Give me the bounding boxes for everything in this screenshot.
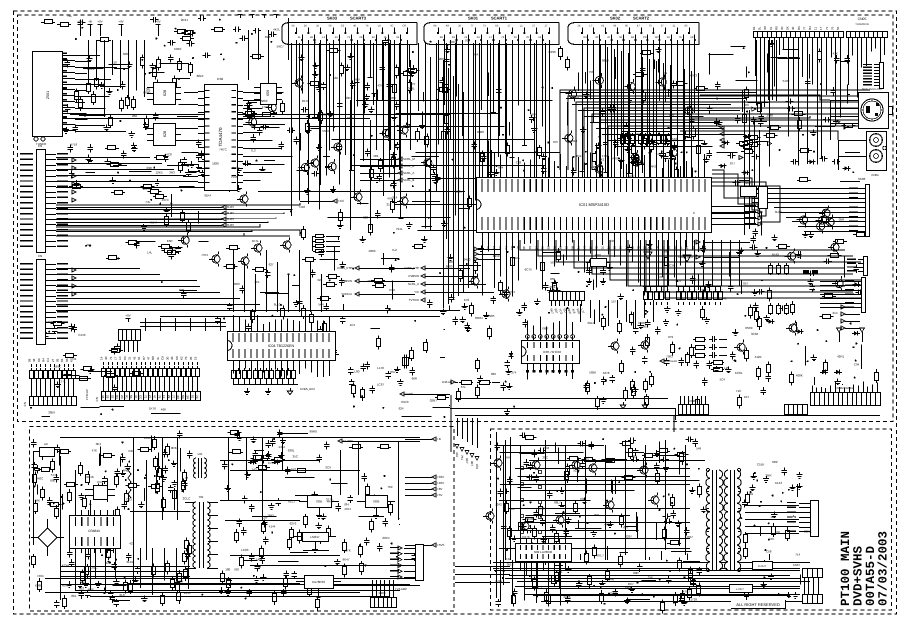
svg-text:844: 844 (498, 166, 503, 170)
svg-text:47C7: 47C7 (683, 589, 691, 593)
svg-text:-: - (696, 287, 697, 291)
svg-text:R8: R8 (570, 246, 574, 250)
svg-text:RRL: RRL (594, 513, 600, 517)
svg-text:57L9: 57L9 (71, 143, 78, 147)
svg-text:37K: 37K (648, 576, 653, 580)
svg-text:+5V: +5V (125, 314, 130, 318)
svg-text:7583: 7583 (666, 354, 673, 358)
svg-text:47K: 47K (833, 52, 838, 56)
svg-text:LC03: LC03 (241, 548, 249, 552)
svg-text:Y: Y (693, 240, 695, 244)
svg-text:702: 702 (465, 39, 470, 43)
svg-text:K144: K144 (150, 221, 157, 225)
svg-text:TDA4470: TDA4470 (218, 127, 223, 147)
svg-text:7374: 7374 (201, 253, 208, 257)
svg-text:K973: K973 (690, 74, 697, 78)
svg-text:SK02: SK02 (610, 16, 621, 21)
svg-text:55R7: 55R7 (322, 129, 330, 133)
svg-text:7K: 7K (184, 356, 188, 360)
svg-text:7L4: 7L4 (795, 553, 800, 557)
svg-text:263: 263 (449, 260, 454, 264)
svg-text:833: 833 (632, 454, 637, 458)
svg-text:1780: 1780 (766, 114, 773, 118)
svg-text:FT06: FT06 (262, 105, 269, 109)
svg-text:80C: 80C (690, 560, 696, 564)
svg-text:784: 784 (344, 502, 349, 506)
svg-text:RESET: RESET (644, 248, 653, 251)
svg-text:6083: 6083 (446, 264, 453, 268)
svg-text:0L: 0L (655, 246, 659, 250)
svg-text:TV/LAMP: TV/LAMP (395, 587, 407, 591)
svg-text:Y/C: Y/C (414, 290, 419, 294)
svg-text:72: 72 (607, 246, 611, 250)
svg-text:24C: 24C (769, 537, 775, 541)
svg-text:4R7: 4R7 (410, 82, 416, 86)
svg-text:274: 274 (511, 371, 516, 375)
svg-text:77: 77 (802, 26, 806, 30)
svg-text:742: 742 (506, 557, 511, 561)
svg-text:3C9: 3C9 (325, 466, 331, 470)
svg-text:1K76: 1K76 (149, 407, 156, 411)
svg-text:2K: 2K (359, 36, 362, 39)
svg-text:CN04: CN04 (871, 173, 879, 177)
svg-text:07/03/2003: 07/03/2003 (877, 531, 891, 606)
svg-text:FL/TRE: FL/TRE (343, 439, 353, 443)
svg-text:80R: 80R (633, 571, 639, 575)
svg-text:K9: K9 (446, 25, 450, 28)
svg-text:71C: 71C (736, 389, 742, 393)
svg-text:6K: 6K (65, 358, 69, 362)
svg-text:907: 907 (470, 461, 474, 466)
svg-text:SCRL_M: SCRL_M (403, 157, 415, 161)
svg-text:CVBS_RC2: CVBS_RC2 (678, 255, 693, 259)
svg-text:05: 05 (189, 356, 193, 360)
svg-text:R9: R9 (583, 36, 587, 39)
svg-text:K7: K7 (70, 358, 74, 362)
svg-text:4K: 4K (170, 356, 174, 360)
svg-text:K9: K9 (540, 246, 544, 250)
svg-text:+8V: +8V (437, 487, 442, 491)
svg-text:6C75: 6C75 (525, 267, 533, 271)
svg-text:RL6: RL6 (265, 35, 271, 39)
svg-text:3284: 3284 (123, 52, 130, 56)
svg-text:699: 699 (179, 288, 184, 292)
svg-text:4RR: 4RR (88, 588, 95, 592)
svg-text:SCRL_A: SCRL_A (403, 171, 414, 175)
svg-text:4258: 4258 (591, 165, 598, 169)
svg-text:17R: 17R (602, 154, 608, 158)
svg-text:3L00: 3L00 (775, 210, 782, 214)
svg-text:R9: R9 (552, 246, 556, 250)
svg-text:7R7C: 7R7C (219, 148, 228, 152)
svg-text:10R3: 10R3 (368, 249, 376, 253)
svg-text:47: 47 (153, 395, 157, 399)
svg-text:44C8: 44C8 (165, 153, 173, 157)
svg-text:47: 47 (147, 356, 151, 360)
svg-text:4144: 4144 (269, 524, 276, 528)
svg-text:CN: CN (95, 397, 99, 401)
svg-text:760: 760 (234, 567, 239, 571)
svg-text:C23: C23 (126, 498, 132, 502)
svg-text:KB03: KB03 (379, 591, 386, 595)
svg-text:-: - (657, 287, 658, 291)
svg-text:0C4L: 0C4L (408, 87, 416, 91)
svg-text:3R3: 3R3 (169, 171, 175, 175)
svg-text:412K: 412K (755, 355, 762, 359)
svg-text:769: 769 (387, 485, 392, 489)
svg-text:0K1: 0K1 (96, 442, 102, 446)
svg-text:40: 40 (791, 26, 795, 30)
svg-text:2065: 2065 (439, 57, 446, 61)
svg-text:8CLL: 8CLL (87, 67, 95, 71)
svg-text:3L4: 3L4 (392, 195, 397, 199)
svg-text:44: 44 (101, 395, 105, 399)
svg-text:K5R: K5R (167, 239, 174, 243)
svg-text:27: 27 (148, 395, 152, 399)
svg-text:756: 756 (589, 70, 594, 74)
svg-text:02: 02 (110, 395, 114, 399)
svg-text:RR: RR (655, 36, 659, 39)
svg-text:CN: CN (38, 144, 42, 148)
svg-text:421: 421 (129, 542, 134, 546)
svg-text:K1: K1 (589, 246, 593, 250)
svg-text:C4: C4 (46, 358, 50, 362)
svg-text:3L: 3L (156, 356, 160, 360)
svg-text:447: 447 (81, 581, 86, 585)
svg-text:02R7: 02R7 (430, 399, 438, 403)
svg-text:085: 085 (669, 113, 674, 117)
svg-text:03: 03 (673, 246, 677, 250)
svg-text:66R: 66R (412, 376, 418, 380)
svg-text:CR: CR (403, 25, 407, 28)
svg-text:C94: C94 (854, 362, 860, 366)
svg-text:6L10: 6L10 (274, 302, 281, 306)
svg-text:05R9: 05R9 (745, 326, 753, 330)
svg-text:R4: R4 (510, 246, 514, 250)
svg-text:7967: 7967 (542, 326, 549, 330)
svg-text:38L: 38L (146, 87, 151, 91)
svg-text:CVBSIN: CVBSIN (341, 279, 352, 283)
svg-text:157: 157 (611, 299, 616, 303)
svg-text:R1K: R1K (389, 288, 395, 292)
svg-text:3CLC: 3CLC (183, 496, 192, 500)
svg-text:33R: 33R (146, 166, 152, 170)
svg-text:88L0: 88L0 (197, 74, 204, 78)
svg-text:5C4: 5C4 (720, 377, 726, 381)
svg-text:5113: 5113 (571, 139, 578, 143)
svg-text:LM317: LM317 (310, 535, 320, 539)
svg-text:546: 546 (672, 137, 677, 141)
svg-text:R70: R70 (613, 157, 619, 161)
svg-text:K143: K143 (775, 481, 782, 485)
svg-text:CN06: CN06 (689, 399, 697, 403)
svg-text:7R0C: 7R0C (36, 476, 45, 480)
svg-text:IC02: IC02 (217, 77, 224, 81)
svg-text:4C1: 4C1 (254, 280, 260, 284)
svg-text:-: - (722, 287, 723, 291)
svg-text:2K: 2K (786, 26, 790, 30)
svg-text:079: 079 (668, 335, 673, 339)
svg-text:MODULAR: MODULAR (664, 360, 677, 363)
svg-text:05R: 05R (839, 218, 845, 222)
svg-text:+5V: +5V (155, 20, 160, 24)
svg-text:764: 764 (510, 290, 515, 294)
svg-text:437: 437 (378, 84, 383, 88)
svg-text:030: 030 (775, 531, 780, 535)
svg-text:+33V: +33V (437, 475, 444, 479)
svg-text:88L7: 88L7 (554, 501, 561, 505)
svg-text:4695: 4695 (604, 523, 611, 527)
svg-text:CL: CL (637, 246, 641, 250)
svg-text:5227: 5227 (573, 469, 580, 473)
svg-text:77: 77 (172, 395, 176, 399)
svg-text:549: 549 (696, 446, 701, 450)
svg-text:L05: L05 (198, 452, 203, 456)
svg-text:C996: C996 (549, 50, 557, 54)
svg-text:659: 659 (266, 90, 270, 96)
svg-text:5139: 5139 (783, 79, 790, 83)
svg-text:4856: 4856 (625, 586, 632, 590)
svg-text:101: 101 (748, 492, 753, 496)
svg-text:SK05 SVHS-OUT: SK05 SVHS-OUT (862, 88, 883, 91)
svg-text:578: 578 (656, 152, 661, 156)
svg-text:954: 954 (823, 208, 828, 212)
svg-text:69C: 69C (580, 497, 586, 501)
svg-text:L4L: L4L (147, 250, 152, 254)
svg-text:T01: T01 (198, 495, 204, 499)
svg-text:13K0: 13K0 (572, 96, 579, 100)
svg-text:214: 214 (833, 311, 838, 315)
svg-text:783: 783 (744, 103, 749, 107)
svg-text:CN: CN (38, 254, 42, 258)
svg-text:R6: R6 (797, 26, 801, 30)
svg-text:-: - (679, 287, 680, 291)
svg-text:8680: 8680 (477, 130, 484, 134)
svg-text:L25: L25 (724, 366, 729, 370)
svg-text:27K: 27K (345, 548, 350, 552)
svg-text:L80: L80 (354, 369, 359, 373)
svg-text:7K: 7K (504, 246, 508, 250)
svg-text:IC05 74HC04: IC05 74HC04 (543, 350, 562, 354)
svg-text:-: - (668, 287, 669, 291)
svg-text:862: 862 (664, 250, 669, 254)
svg-text:7242: 7242 (495, 503, 502, 507)
svg-text:6L8: 6L8 (120, 593, 125, 597)
svg-text:C4R9: C4R9 (649, 164, 657, 168)
svg-text:8613: 8613 (602, 59, 609, 63)
svg-text:RLKL: RLKL (513, 256, 521, 260)
svg-text:-: - (705, 287, 706, 291)
svg-text:30: 30 (165, 356, 169, 360)
svg-text:12K5: 12K5 (156, 171, 163, 175)
svg-text:+18V: +18V (437, 481, 444, 485)
svg-text:2K: 2K (304, 25, 307, 28)
svg-text:7L3: 7L3 (251, 149, 256, 153)
svg-text:R476: R476 (522, 535, 530, 539)
svg-text:Z501: Z501 (46, 91, 50, 99)
svg-text:SCART3: SCART3 (350, 16, 367, 21)
svg-text:66: 66 (137, 356, 141, 360)
svg-text:1C4: 1C4 (350, 323, 356, 327)
svg-text:KC44: KC44 (62, 564, 70, 568)
svg-text:RJ45: RJ45 (227, 205, 234, 209)
svg-text:R83: R83 (234, 282, 240, 286)
svg-text:5856: 5856 (589, 371, 596, 375)
svg-text:7805: 7805 (316, 499, 323, 503)
svg-text:C82C: C82C (90, 566, 99, 570)
svg-text:RC5K: RC5K (169, 247, 177, 251)
svg-text:K64: K64 (505, 455, 511, 459)
svg-text:9C7: 9C7 (465, 458, 469, 464)
svg-text:851: 851 (510, 507, 515, 511)
svg-text:K48L: K48L (35, 584, 42, 588)
svg-text:71L: 71L (67, 14, 72, 18)
svg-text:C03: C03 (516, 160, 522, 164)
svg-text:R1: R1 (125, 395, 129, 399)
svg-text:86L: 86L (71, 594, 76, 598)
svg-text:91K4: 91K4 (204, 194, 211, 198)
svg-text:+5V: +5V (77, 20, 82, 24)
svg-text:R0R: R0R (62, 583, 69, 587)
svg-text:73: 73 (109, 356, 113, 360)
svg-text:30C: 30C (542, 456, 548, 460)
svg-text:CR: CR (643, 36, 647, 39)
svg-text:561: 561 (551, 260, 556, 264)
svg-text:CVBS_FTP: CVBS_FTP (404, 266, 419, 270)
svg-text:7K: 7K (679, 36, 682, 39)
svg-text:C727: C727 (610, 591, 618, 595)
svg-text:794L: 794L (396, 227, 403, 231)
svg-text:7595: 7595 (231, 175, 238, 179)
svg-text:74L: 74L (145, 200, 150, 204)
svg-text:37K: 37K (105, 561, 110, 565)
svg-text:2097: 2097 (450, 40, 457, 44)
svg-text:7809: 7809 (373, 499, 380, 503)
svg-text:KC8L: KC8L (735, 371, 743, 375)
svg-text:+5VS: +5VS (437, 543, 444, 547)
svg-text:L48: L48 (256, 558, 261, 562)
svg-text:107: 107 (744, 395, 749, 399)
svg-text:446: 446 (367, 279, 372, 283)
svg-text:210: 210 (112, 61, 117, 65)
svg-text:43: 43 (132, 356, 136, 360)
svg-text:89R0: 89R0 (310, 429, 318, 433)
svg-text:1626: 1626 (212, 162, 219, 166)
svg-text:09LC: 09LC (588, 321, 596, 325)
svg-text:L-OUT: L-OUT (736, 588, 744, 591)
svg-text:SK03: SK03 (327, 16, 338, 21)
svg-text:+5V: +5V (437, 493, 442, 497)
svg-text:5K33: 5K33 (526, 517, 533, 521)
svg-text:L176: L176 (377, 366, 384, 370)
svg-text:83: 83 (528, 246, 532, 250)
svg-text:46K: 46K (35, 498, 40, 502)
svg-text:K2: K2 (180, 356, 184, 360)
svg-text:466: 466 (161, 407, 166, 411)
svg-text:KK: KK (175, 356, 179, 360)
svg-text:4K: 4K (104, 356, 108, 360)
svg-text:+B: +B (437, 437, 441, 441)
svg-text:5K96: 5K96 (539, 507, 546, 511)
svg-text:71: 71 (825, 26, 829, 30)
svg-text:324: 324 (317, 278, 322, 282)
svg-text:624: 624 (399, 407, 404, 411)
svg-text:180: 180 (225, 567, 230, 571)
svg-text:-: - (701, 287, 702, 291)
svg-text:-: - (646, 287, 647, 291)
svg-text:SCART1: SCART1 (491, 16, 508, 21)
svg-text:05: 05 (56, 358, 60, 362)
svg-text:LK: LK (378, 25, 381, 28)
svg-text:4LR5: 4LR5 (563, 595, 571, 599)
svg-text:5K: 5K (129, 395, 133, 399)
svg-text:29: 29 (106, 395, 110, 399)
svg-text:88: 88 (691, 246, 695, 250)
svg-text:67: 67 (498, 246, 502, 250)
svg-text:C51K: C51K (757, 463, 765, 467)
svg-text:07L7: 07L7 (597, 554, 604, 558)
svg-text:48: 48 (32, 358, 36, 362)
svg-text:C58: C58 (766, 549, 772, 553)
svg-text:R57: R57 (390, 370, 396, 374)
svg-text:K21: K21 (129, 449, 135, 453)
svg-text:0L: 0L (758, 26, 762, 30)
svg-text:SCART2: SCART2 (633, 16, 650, 21)
svg-text:25: 25 (564, 246, 568, 250)
svg-text:092: 092 (79, 586, 84, 590)
svg-text:83: 83 (752, 26, 756, 30)
svg-text:76: 76 (830, 26, 834, 30)
svg-text:20C4: 20C4 (382, 536, 390, 540)
svg-text:9K47: 9K47 (343, 558, 350, 562)
svg-text:877: 877 (730, 162, 735, 166)
svg-text:SCRL_A: SCRL_A (408, 282, 419, 286)
svg-text:CN02 PANEL: CN02 PANEL (837, 386, 854, 390)
svg-text:4K47: 4K47 (327, 500, 334, 504)
svg-text:SK06: SK06 (858, 177, 866, 181)
svg-text:4957: 4957 (347, 116, 354, 120)
svg-text:R03K: R03K (47, 320, 55, 324)
svg-text:72: 72 (143, 395, 147, 399)
svg-text:13: 13 (162, 395, 166, 399)
svg-text:-: - (663, 287, 664, 291)
svg-text:7446: 7446 (298, 205, 305, 209)
svg-text:11: 11 (814, 27, 818, 30)
svg-text:CVBS_RC2: CVBS_RC2 (300, 387, 315, 391)
svg-text:42R1: 42R1 (837, 354, 845, 358)
svg-text:36: 36 (619, 246, 623, 250)
svg-text:6276: 6276 (290, 522, 297, 526)
svg-text:R4: R4 (42, 358, 46, 362)
svg-text:RJ45: RJ45 (227, 217, 234, 221)
svg-text:685: 685 (584, 458, 589, 462)
svg-text:1771: 1771 (59, 379, 66, 383)
svg-text:L9: L9 (685, 246, 689, 250)
svg-text:5869: 5869 (261, 99, 268, 103)
svg-text:1729: 1729 (690, 598, 697, 602)
svg-text:4K49: 4K49 (772, 252, 779, 256)
svg-text:638L: 638L (288, 449, 295, 453)
svg-text:C9: C9 (161, 356, 165, 360)
svg-text:0518: 0518 (507, 563, 514, 567)
svg-text:260: 260 (132, 114, 137, 118)
svg-text:-: - (652, 287, 653, 291)
svg-text:84R: 84R (608, 577, 614, 581)
svg-text:R17: R17 (629, 175, 635, 179)
svg-text:057: 057 (743, 281, 748, 285)
svg-text:152L: 152L (455, 189, 462, 193)
svg-text:K76: K76 (464, 298, 470, 302)
